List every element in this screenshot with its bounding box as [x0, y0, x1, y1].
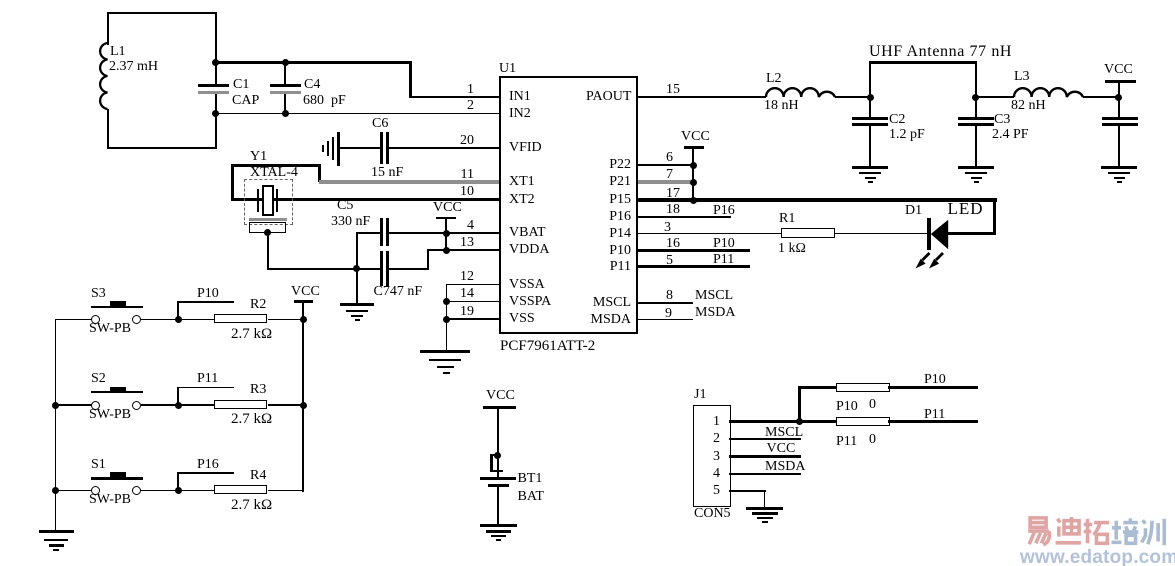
node	[796, 418, 803, 425]
crystal Y1	[250, 150, 267, 165]
wire	[993, 198, 997, 235]
node	[300, 402, 307, 409]
wire	[268, 319, 303, 321]
wire to pin 1	[215, 61, 411, 64]
watermark logo	[1021, 516, 1171, 548]
VCC rail (switches)	[291, 285, 320, 300]
node	[690, 179, 697, 186]
switch S3	[91, 287, 106, 302]
wire	[178, 319, 214, 321]
capacitor C1	[198, 84, 229, 87]
battery BT1	[480, 477, 517, 480]
wire	[835, 96, 871, 98]
wire pin 8 MSCL	[638, 302, 693, 304]
resistor R3	[214, 400, 267, 409]
crystal case foot	[249, 218, 288, 221]
op-amp U1 IC box PCF7961ATT-2	[499, 76, 638, 334]
capacitor C2	[869, 97, 871, 118]
power VCC (near VBAT)	[433, 201, 462, 216]
node	[212, 59, 219, 66]
node	[175, 402, 182, 409]
node	[175, 487, 182, 494]
wire	[215, 12, 217, 84]
wire pin 7 (gray)	[638, 180, 694, 184]
wire J1 pin 4 MSDA	[729, 473, 802, 475]
diode D1 LED	[927, 218, 931, 250]
wire to pin 4	[356, 232, 380, 234]
wire XT2 (thick)	[231, 198, 499, 202]
wire	[888, 420, 978, 423]
wire pin 6	[638, 164, 694, 166]
node	[690, 197, 697, 204]
node	[282, 110, 289, 117]
node label P10	[177, 301, 179, 320]
pin numbers left	[450, 83, 474, 98]
resistor R1	[781, 228, 835, 238]
resistor R4	[214, 485, 267, 494]
left ground rail	[55, 319, 57, 532]
node label P10	[924, 373, 946, 388]
ground (C2)	[852, 166, 888, 169]
wire	[178, 404, 214, 406]
wire to pin 13	[427, 249, 500, 251]
node label P11	[177, 387, 179, 406]
wire	[267, 268, 381, 270]
inductor L3	[1013, 88, 1084, 98]
wire pin 18 P16	[638, 216, 731, 218]
capacitor C7	[380, 251, 383, 286]
connector J1	[693, 405, 731, 508]
wire J1 pin 5	[729, 490, 766, 492]
ground (VSS rail)	[420, 350, 470, 353]
wire	[497, 487, 499, 525]
battery BT1 tab	[494, 452, 501, 459]
wire	[835, 233, 928, 235]
capacitor C6	[380, 132, 383, 164]
ground (C6 left, pointing left)	[337, 132, 340, 166]
node	[212, 110, 219, 117]
capacitor (far right)	[1102, 117, 1138, 120]
ground (C3)	[958, 166, 994, 169]
switch S2	[91, 372, 106, 387]
wire	[339, 147, 380, 149]
node	[690, 162, 697, 169]
wire XT1 (gray)	[319, 180, 499, 184]
node label P11	[924, 408, 945, 423]
node	[972, 94, 979, 101]
node	[443, 316, 450, 323]
capacitor C3	[975, 97, 977, 118]
switch S1	[91, 458, 106, 473]
inductor L2	[765, 88, 836, 98]
wire pin 5 P11	[638, 265, 750, 268]
wire row P10	[798, 386, 837, 389]
node	[300, 316, 307, 323]
node	[353, 265, 360, 272]
ground (J1)	[746, 507, 783, 510]
power VCC (far right)	[1104, 63, 1133, 78]
VSS rail wires pins 12 14 19	[446, 284, 500, 286]
wire P15 pin 17 (thick)	[638, 198, 997, 202]
node	[175, 316, 182, 323]
ground (far right)	[1101, 166, 1137, 169]
resistor P11 0	[836, 417, 890, 426]
node	[282, 59, 289, 66]
UHF antenna loop	[869, 61, 977, 64]
crystal Y1 wiring	[231, 164, 234, 201]
node	[52, 487, 59, 494]
wire to pin 20	[389, 147, 500, 149]
wire J1 pin 2 MSCL	[729, 438, 802, 440]
node label P16	[177, 472, 179, 491]
wire pin 9 MSDA	[638, 319, 693, 321]
pin labels right	[586, 90, 631, 105]
ground (battery)	[480, 524, 517, 527]
wire	[888, 386, 978, 389]
capacitor C4	[284, 63, 286, 85]
resistor P10 0	[836, 383, 890, 392]
wire pin 3 to R1	[638, 233, 782, 235]
wire	[976, 96, 1014, 98]
power VCC (battery)	[486, 389, 515, 404]
ground (below C5 rail)	[340, 303, 374, 306]
wire	[215, 94, 217, 149]
node	[443, 247, 450, 254]
wire	[446, 284, 448, 352]
wire	[141, 319, 179, 321]
wire PAOUT pin 15	[638, 96, 766, 98]
wire	[141, 404, 179, 406]
wire	[178, 490, 214, 492]
node	[867, 94, 874, 101]
wire	[356, 232, 358, 304]
power VCC (above P22)	[681, 130, 710, 145]
wire riser	[798, 386, 801, 422]
wire LED to P15	[948, 232, 996, 235]
node	[443, 298, 450, 305]
wire	[268, 404, 303, 406]
capacitor C5	[380, 218, 383, 246]
wire pin 16 P10	[638, 249, 750, 252]
wire J1 pin 1	[729, 420, 801, 423]
wire to pin 2	[215, 113, 499, 115]
inductor L1	[107, 12, 217, 14]
wire row P11	[800, 420, 837, 423]
pin labels left	[509, 90, 531, 105]
wire	[1083, 96, 1120, 98]
wire	[267, 233, 269, 269]
node	[443, 230, 450, 237]
wire	[268, 490, 303, 492]
wire J1 pin 3 VCC	[729, 455, 802, 459]
node	[1115, 94, 1122, 101]
node	[52, 402, 59, 409]
pin numbers right	[666, 83, 680, 98]
resistor R2	[214, 314, 267, 323]
ground (left rail)	[39, 530, 74, 533]
wire	[141, 490, 179, 492]
